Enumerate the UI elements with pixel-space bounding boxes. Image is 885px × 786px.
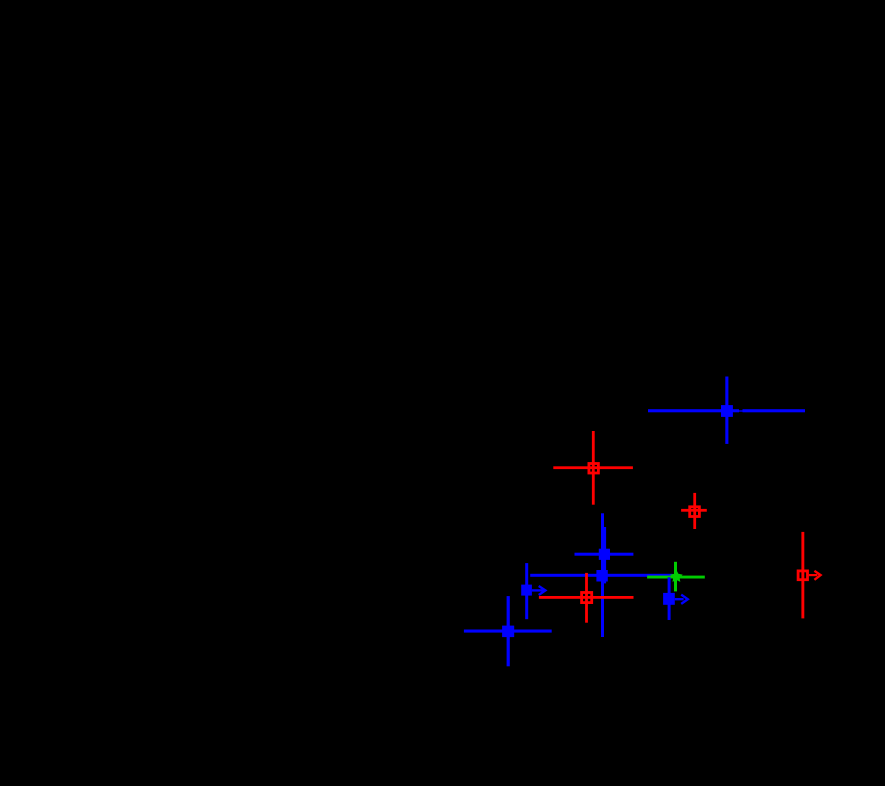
P1 x error bar [648,409,739,412]
P11 y error bar [801,532,804,619]
P10 marker [502,626,514,638]
P1 y error bar [725,377,728,444]
P8 x error bar [539,596,634,599]
P2 y error bar [592,431,595,505]
P6 y error bar [674,562,677,592]
P9 arrow head [681,595,688,604]
P4 y error bar [603,527,606,583]
P11 arrow head [814,571,820,580]
P5 x error bar [530,574,672,577]
data point P7 (blue filled square, upper-limit arrow right) [521,563,545,619]
P7 y error bar [525,563,528,619]
P2 marker [589,464,599,474]
data point P2 (red open square, x/y error bars) [553,431,633,505]
P3 marker [690,507,700,517]
data point P3 (red open square, x/y error bars) [681,493,707,529]
data point P6 (green star, x/y error bars) [647,562,705,592]
P5 y error bar [601,513,604,637]
P4 marker [599,549,610,560]
P7 arrow head [539,586,546,595]
data point P9 (blue filled square, upper-limit arrow right) [663,577,688,620]
P3 y error bar [693,493,696,529]
P9 marker [663,593,675,605]
data point P10 (blue filled square, x/y error bars) [464,596,552,666]
P8 marker [582,593,592,603]
P10 x error bar [464,630,552,633]
data point P5 (blue filled square, long x error bar) [530,513,672,637]
P3 x error bar [681,509,707,512]
P9 y error bar [668,577,671,620]
P11 marker [798,571,807,580]
P4 x error bar [575,553,634,556]
P6 x error bar [647,576,705,579]
P1 marker [721,405,733,417]
P7 marker [521,585,532,596]
P7 arrow shaft [532,589,544,591]
data point P8 (red open square, x/y error bars) [539,573,634,623]
P5 marker [596,570,607,582]
data point P4 (blue filled square, x/y error bars) [575,527,634,583]
P6 marker (filled star) [670,570,683,582]
P2 x error bar [553,466,633,469]
P11 arrow shaft [809,574,817,576]
data point P11 (red open square, upper-limit arrow right) [798,532,821,619]
P9 arrow shaft [675,598,684,600]
P8 y error bar [585,573,588,623]
data point P1 (blue filled square, x/y error bars) [648,377,805,444]
P10 y error bar [507,596,510,666]
